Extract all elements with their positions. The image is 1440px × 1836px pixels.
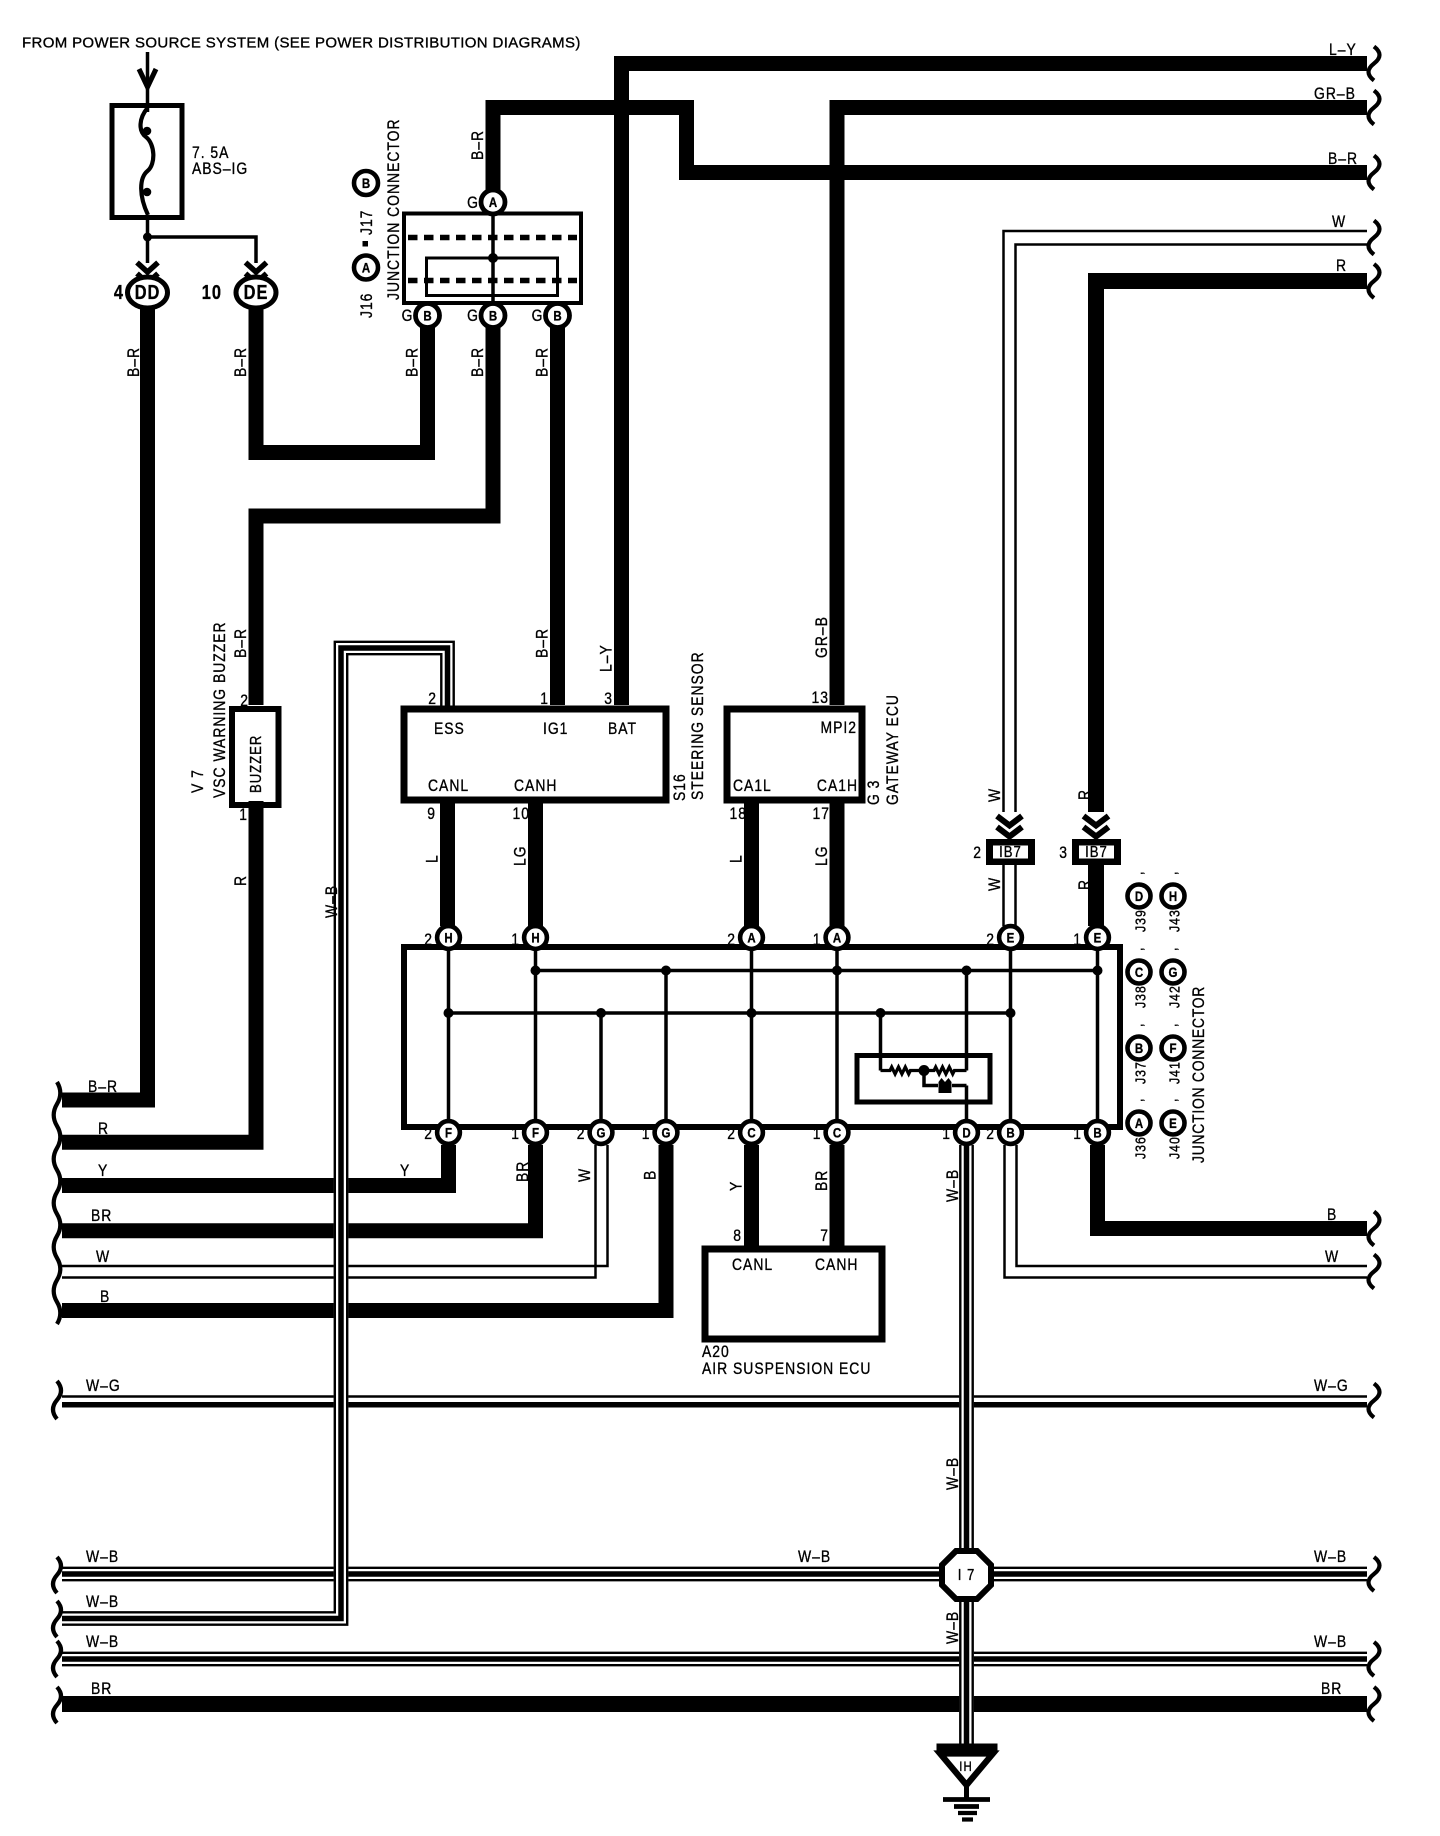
svg-text:,: , [1129, 947, 1145, 951]
svg-text:2: 2 [240, 692, 249, 711]
svg-text:3: 3 [604, 690, 613, 709]
svg-text:1: 1 [942, 1125, 951, 1144]
svg-text:BR: BR [514, 1161, 533, 1182]
svg-text:L: L [423, 854, 442, 863]
svg-text:AIR SUSPENSION ECU: AIR SUSPENSION ECU [702, 1360, 871, 1379]
svg-text:J17: J17 [358, 210, 377, 235]
svg-text:E: E [1169, 1115, 1177, 1131]
dashed line upper [408, 235, 577, 241]
ground IH [937, 1744, 998, 1751]
right edge squiggle [1369, 91, 1380, 125]
connector I7 octagon [942, 1551, 991, 1599]
svg-text:2: 2 [986, 1125, 995, 1144]
wire L-Y right edge to BAT [622, 64, 1368, 706]
wire W from pin 2B to right edge [1005, 1145, 1368, 1278]
pin B1 [416, 304, 440, 328]
steering sensor S16 box [404, 709, 666, 800]
center vertical [491, 215, 495, 301]
svg-text:2: 2 [973, 844, 982, 863]
connector DE [236, 277, 276, 308]
wire W-B from ESS shielded [62, 642, 454, 1613]
junction dot CANH bus [832, 966, 842, 976]
junction node below fuse [143, 233, 152, 242]
left edge squiggle W-B [53, 1557, 61, 1593]
wire LG from CANH [528, 803, 543, 926]
right edge squiggle [1369, 1687, 1380, 1721]
fuse element [141, 108, 154, 215]
wire GR-B right edge to MPI2 [837, 108, 1367, 706]
wire W-B pin D to ground shielded [959, 1145, 961, 1744]
svg-text:C: C [833, 1124, 841, 1140]
svg-text:BR: BR [813, 1170, 832, 1191]
wire fuse to junction [146, 217, 150, 263]
svg-text:B: B [553, 307, 561, 323]
svg-text:B: B [1327, 1206, 1337, 1225]
svg-text:B: B [423, 307, 431, 323]
svg-text:CA1L: CA1L [733, 777, 772, 796]
svg-text:W–B: W–B [86, 1548, 119, 1567]
wire R right edge corner down [1096, 281, 1367, 812]
junction connector J16/J17 box [404, 214, 581, 304]
svg-text:G 3: G 3 [865, 780, 884, 805]
svg-text:8: 8 [733, 1227, 742, 1246]
internal wire 2G [599, 1013, 603, 1124]
wire Y from pin 2C to A20 [744, 1145, 759, 1252]
svg-text:B–R: B–R [125, 347, 144, 377]
svg-text:10: 10 [202, 280, 222, 303]
svg-text:J43: J43 [1166, 909, 1182, 932]
svg-text:J40: J40 [1166, 1136, 1182, 1159]
svg-text:D: D [962, 1124, 970, 1140]
resistor R2 [924, 1067, 967, 1074]
svg-text:B: B [100, 1288, 110, 1307]
svg-text:STEERING SENSOR: STEERING SENSOR [689, 651, 708, 800]
svg-text:W–B: W–B [86, 1593, 119, 1612]
svg-text:B–R: B–R [403, 347, 422, 377]
terminating resistor box [857, 1056, 990, 1103]
CANL bus line [449, 1011, 1011, 1015]
wire R buzzer to left edge [62, 801, 256, 1142]
right edge squiggle [1369, 264, 1380, 298]
wire B-R from J16 B2 to buzzer [256, 326, 493, 705]
fuse element dot top [143, 127, 152, 136]
svg-text:W–G: W–G [86, 1377, 121, 1396]
junction dot CANH bus [1093, 966, 1103, 976]
left edge squiggle BR [53, 1687, 61, 1723]
svg-text:2: 2 [428, 690, 437, 709]
svg-text:BR: BR [91, 1680, 112, 1699]
svg-text:1: 1 [642, 1125, 651, 1144]
svg-text:W: W [576, 1168, 595, 1182]
wire L from CA1L [744, 803, 759, 926]
wire B-R from J16 B3 to IG1 [550, 326, 565, 705]
internal wire 2A-2C [750, 950, 754, 1124]
svg-text:W–B: W–B [798, 1548, 831, 1567]
right edge squiggle [1369, 1212, 1380, 1246]
svg-text:1: 1 [540, 690, 549, 709]
svg-text:H: H [531, 929, 539, 945]
svg-text:E: E [1094, 929, 1102, 945]
svg-text:13: 13 [812, 689, 829, 708]
svg-text:C: C [747, 1124, 755, 1140]
svg-text:R: R [1076, 789, 1095, 800]
wire Y from pin 2F to left edge [62, 1145, 449, 1186]
svg-text:W–B: W–B [1314, 1633, 1347, 1652]
svg-text:W–B: W–B [944, 1169, 963, 1202]
left edge squiggle W-B [53, 1601, 61, 1637]
svg-text:2: 2 [986, 931, 995, 950]
svg-text:2: 2 [727, 1125, 736, 1144]
svg-text:2: 2 [424, 931, 433, 950]
svg-text:A: A [833, 929, 841, 945]
svg-text:1: 1 [1073, 1125, 1082, 1144]
svg-text:1: 1 [1073, 931, 1082, 950]
svg-text:JUNCTION CONNECTOR: JUNCTION CONNECTOR [385, 119, 404, 300]
svg-text:IG1: IG1 [543, 720, 568, 739]
svg-text:MPI2: MPI2 [821, 719, 857, 738]
svg-text:W–B: W–B [1314, 1548, 1347, 1567]
svg-text:DE: DE [244, 280, 269, 303]
svg-text:A: A [489, 194, 497, 210]
wire L from CANL [440, 803, 455, 926]
svg-text:A: A [362, 259, 370, 275]
svg-text:L: L [727, 854, 746, 863]
svg-text:I 7: I 7 [958, 1567, 976, 1584]
capacitor [939, 1078, 952, 1093]
junction dot resistor center [919, 1065, 930, 1076]
svg-text:B–R: B–R [232, 628, 251, 658]
svg-text:1: 1 [511, 931, 520, 950]
svg-text:,: , [1129, 871, 1145, 875]
wire BR bottom [62, 1696, 1367, 1712]
wire B from pin 1B to right edge [1098, 1145, 1368, 1229]
CANH bus line [536, 969, 1098, 973]
left edge squiggle wires group [54, 1082, 61, 1324]
svg-text:J39: J39 [1132, 909, 1148, 932]
junction dot CANL bus [444, 1008, 454, 1018]
wire R IB7 to pin 1E [1088, 865, 1104, 926]
svg-text:G: G [532, 307, 544, 326]
connector IB7 no3 [1072, 839, 1121, 865]
svg-text:J16: J16 [358, 293, 377, 318]
connector IB7 no2 [986, 839, 1035, 865]
svg-text:S16: S16 [671, 773, 690, 801]
svg-text:BUZZER: BUZZER [248, 735, 265, 793]
internal wire 1G [664, 971, 668, 1125]
svg-text:ABS–IG: ABS–IG [192, 160, 248, 179]
pin B3 [546, 304, 570, 328]
capacitor lead [924, 1071, 938, 1086]
junction dot CANL bus [747, 1008, 757, 1018]
svg-text:D: D [1135, 888, 1143, 904]
svg-text:B–R: B–R [469, 130, 488, 160]
svg-text:B–R: B–R [533, 347, 552, 377]
svg-text:VSC WARNING BUZZER: VSC WARNING BUZZER [211, 621, 230, 798]
inner rect [427, 258, 558, 296]
svg-text:CANH: CANH [514, 777, 557, 796]
wire W right edge corner down [1004, 231, 1368, 812]
svg-text:B: B [489, 307, 497, 323]
svg-text:W: W [986, 788, 1005, 802]
svg-text:B–R: B–R [469, 347, 488, 377]
svg-text:G: G [597, 1124, 606, 1140]
svg-text:G: G [402, 307, 414, 326]
svg-text:B: B [362, 175, 370, 191]
svg-text:1: 1 [239, 806, 248, 825]
svg-text:1: 1 [511, 1125, 520, 1144]
svg-text:2: 2 [577, 1125, 586, 1144]
svg-text:W–B: W–B [944, 1611, 963, 1644]
svg-text:V 7: V 7 [189, 769, 208, 793]
svg-text:Y: Y [98, 1162, 108, 1181]
wire LG from CA1H [830, 803, 845, 926]
svg-text:W: W [986, 877, 1005, 891]
svg-text:B–R: B–R [533, 628, 552, 658]
internal wire bus to resistor right [965, 971, 969, 1071]
svg-text:A: A [747, 929, 755, 945]
svg-text:1: 1 [813, 1125, 822, 1144]
svg-text:17: 17 [813, 805, 830, 824]
svg-text:,: , [1129, 1098, 1145, 1102]
svg-text:GATEWAY ECU: GATEWAY ECU [884, 694, 903, 805]
svg-text:E: E [1007, 929, 1015, 945]
wire BR from pin 1C to A20 [830, 1145, 845, 1252]
svg-text:2: 2 [727, 931, 736, 950]
svg-text:LG: LG [813, 845, 832, 866]
svg-text:BR: BR [91, 1207, 112, 1226]
wire B-R from DE to J16 pin B1 [256, 306, 428, 453]
wire B-R from J16 A to right edge [493, 108, 1367, 193]
svg-text:F: F [532, 1124, 539, 1140]
svg-text:G: G [467, 307, 479, 326]
svg-text:F: F [445, 1124, 452, 1140]
svg-text:G: G [467, 194, 479, 213]
svg-text:7: 7 [820, 1227, 829, 1246]
svg-text:4: 4 [114, 280, 124, 303]
right edge squiggle [1369, 47, 1380, 81]
right edge squiggle [1369, 156, 1380, 190]
svg-text:J37: J37 [1132, 1061, 1148, 1084]
dashed line lower [408, 278, 577, 284]
right edge squiggle [1369, 1557, 1380, 1591]
svg-text:3: 3 [1059, 844, 1068, 863]
wire B from pin 1G to left edge [62, 1145, 666, 1311]
svg-text:,: , [1163, 871, 1179, 875]
svg-text:H: H [1169, 888, 1177, 904]
internal wire 2H-2F [447, 950, 451, 1124]
internal wire to resistor left [879, 1013, 883, 1071]
svg-text:B–R: B–R [1328, 150, 1358, 169]
svg-text:10: 10 [513, 805, 530, 824]
svg-text:B: B [1006, 1124, 1014, 1140]
right edge squiggle [1369, 1384, 1380, 1418]
left edge squiggle W-G [53, 1381, 61, 1419]
buzzer V7 box [232, 709, 279, 805]
junction dot CANL bus [1006, 1008, 1016, 1018]
pin B2 [481, 304, 505, 328]
svg-text:G: G [662, 1124, 671, 1140]
svg-text:C: C [1135, 964, 1143, 980]
svg-text:BR: BR [1321, 1680, 1342, 1699]
resistor R1 [881, 1067, 925, 1074]
svg-text:GR–B: GR–B [813, 616, 832, 658]
wire W-B shielded [62, 1567, 1367, 1569]
svg-text:B–R: B–R [88, 1078, 118, 1097]
svg-text:J42: J42 [1166, 985, 1182, 1008]
svg-text:IB7: IB7 [1085, 844, 1108, 861]
svg-text:R: R [232, 875, 251, 886]
white mask under W-B ground vertical [959, 1390, 974, 1412]
svg-text:B: B [1093, 1124, 1101, 1140]
fuse ABS-IG box [112, 106, 182, 218]
svg-text:B: B [1135, 1040, 1143, 1056]
svg-text:,: , [1163, 1098, 1179, 1102]
wire junction to DE branch [148, 237, 257, 263]
arrow into DE [246, 263, 267, 273]
svg-text:B: B [641, 1170, 660, 1180]
svg-text:ESS: ESS [434, 720, 465, 739]
junction dot CANH bus [661, 966, 671, 976]
junction dot CANL bus [596, 1008, 606, 1018]
internal wire 1H-1F [534, 950, 538, 1124]
wire W from pin 2G to left edge [62, 1145, 608, 1266]
svg-text:W–B: W–B [944, 1457, 963, 1490]
junction connector main box [404, 947, 1120, 1127]
svg-text:1: 1 [813, 931, 822, 950]
svg-text:R: R [1336, 257, 1347, 276]
svg-text:IB7: IB7 [999, 844, 1022, 861]
wire B-R from DD down-left [62, 306, 148, 1100]
gateway ECU G3 box [727, 709, 862, 800]
internal wire 1A-1C [835, 950, 839, 1124]
svg-text:,: , [1163, 1023, 1179, 1027]
internal wire 1E-1B [1096, 950, 1100, 1124]
svg-text:Y: Y [400, 1162, 410, 1181]
svg-text:CA1H: CA1H [817, 777, 858, 796]
svg-text:CANL: CANL [732, 1256, 773, 1275]
svg-text:A20: A20 [702, 1343, 730, 1362]
junction dot CANH bus [962, 966, 972, 976]
svg-text:L–Y: L–Y [597, 644, 616, 672]
junction dot [488, 253, 498, 263]
arrow into DD [137, 263, 158, 273]
svg-text:W–G: W–G [1314, 1377, 1349, 1396]
svg-text:CANH: CANH [815, 1256, 858, 1275]
svg-text:H: H [444, 929, 452, 945]
svg-text:R: R [98, 1120, 109, 1139]
wire W-B shielded 3 [62, 1652, 1367, 1654]
internal wire 2E-2B [1009, 950, 1013, 1124]
svg-text:BAT: BAT [608, 720, 637, 739]
right edge squiggle [1369, 1255, 1380, 1289]
wire BR from pin 1F to left edge [62, 1145, 536, 1231]
connector DD [128, 277, 168, 308]
svg-text:J38: J38 [1132, 985, 1148, 1008]
wire W-G [62, 1395, 1367, 1398]
svg-text:DD: DD [135, 280, 161, 303]
svg-text:A: A [1135, 1115, 1143, 1131]
svg-text:,: , [1129, 1023, 1145, 1027]
svg-text:J41: J41 [1166, 1061, 1182, 1084]
arrow into IB7 no2 [997, 816, 1022, 826]
svg-text:W: W [1332, 213, 1346, 232]
svg-text:GR–B: GR–B [1314, 85, 1356, 104]
svg-text:FROM POWER SOURCE SYSTEM (SEE: FROM POWER SOURCE SYSTEM (SEE POWER DIST… [22, 35, 581, 52]
arrow into fuse [139, 69, 156, 87]
junction dot CANL bus [876, 1008, 886, 1018]
junction dot CANH bus [531, 966, 541, 976]
svg-text:W–B: W–B [323, 885, 342, 918]
svg-text:W: W [96, 1248, 110, 1267]
right edge squiggle [1369, 1642, 1380, 1676]
svg-text:2: 2 [424, 1125, 433, 1144]
air suspension ECU A20 box [705, 1249, 882, 1339]
svg-text:9: 9 [427, 805, 436, 824]
arrow into IB7 no3 [1084, 816, 1109, 826]
svg-text:Y: Y [727, 1181, 746, 1191]
svg-text:IH: IH [959, 1758, 972, 1774]
right edge squiggle [1369, 221, 1380, 255]
svg-text:L–Y: L–Y [1329, 41, 1357, 60]
svg-text:JUNCTION CONNECTOR: JUNCTION CONNECTOR [1190, 986, 1209, 1163]
svg-text:F: F [1169, 1040, 1176, 1056]
svg-text:W–B: W–B [86, 1633, 119, 1652]
svg-text:B–R: B–R [232, 347, 251, 377]
svg-text:CANL: CANL [428, 777, 469, 796]
svg-text:W: W [1325, 1248, 1339, 1267]
svg-text:J36: J36 [1132, 1136, 1148, 1159]
fuse element dot bottom [143, 188, 152, 197]
svg-text:G: G [1169, 964, 1178, 980]
pin A [481, 190, 505, 214]
wire W IB7 to pin 2E [1002, 865, 1005, 926]
left edge squiggle W-B [53, 1641, 61, 1677]
wire into fuse [146, 52, 150, 112]
svg-text:LG: LG [511, 845, 530, 866]
svg-text:,: , [1163, 947, 1179, 951]
white mask under W-B vertical [334, 1170, 349, 1330]
internal wire cap to pin D [965, 1086, 969, 1132]
svg-text:R: R [1076, 879, 1095, 890]
